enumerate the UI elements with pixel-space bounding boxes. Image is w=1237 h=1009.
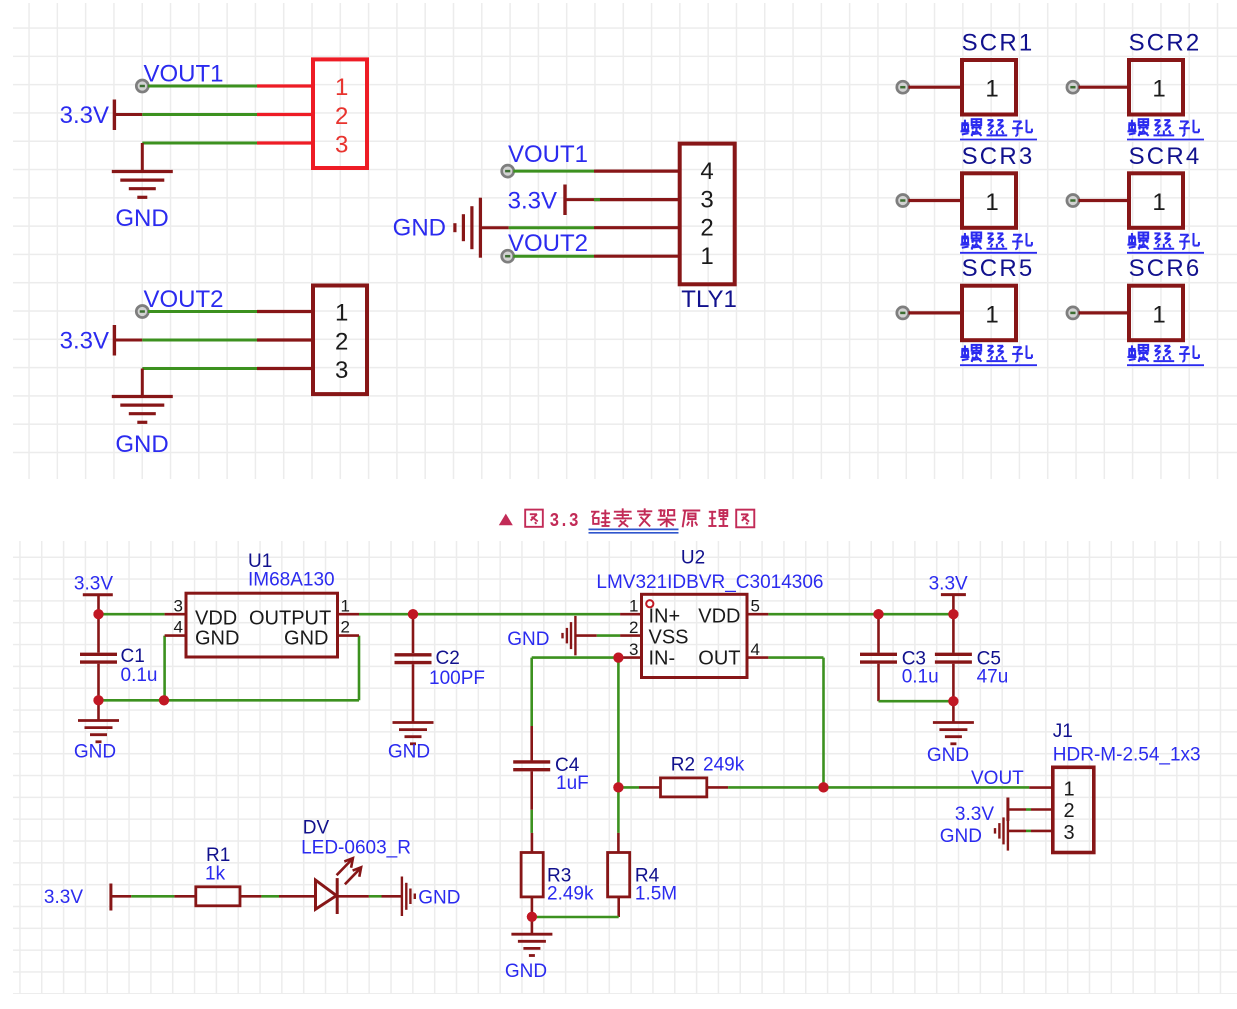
svg-text:1.5M: 1.5M [635,884,677,905]
connector P1 (red 1x3 header) [313,59,367,168]
TLY1 pin 3 stub [594,198,680,201]
pin circle VOUT2 [136,306,148,318]
junction node 3.3V/C1 [93,609,103,619]
wire VOUT1 to TLY1.4 [513,170,594,173]
caption text: yuan li tu [683,511,701,528]
svg-text:J1: J1 [1053,721,1073,742]
ground symbol (C2) [393,721,434,724]
svg-text:3.3: 3.3 [550,510,579,532]
svg-text:GND: GND [195,628,239,650]
svg-text:3.3V: 3.3V [929,574,968,595]
label luosikong (SCR3) [960,233,1037,253]
svg-text:3: 3 [335,357,348,384]
junction node C5/3.3V [948,609,958,619]
label luosikong (SCR4) [1127,233,1204,253]
svg-text:4: 4 [700,158,713,185]
P1 pin 2 stub [257,113,313,116]
svg-text:1: 1 [1152,189,1165,216]
svg-text:1: 1 [700,243,713,270]
junction node feedback/VOUT [818,782,828,792]
caption triangle marker [499,514,513,526]
svg-text:3.3V: 3.3V [955,804,994,825]
junction node C2 [408,609,418,619]
svg-text:2: 2 [1064,800,1075,822]
wire 3.3V to TLY1.3 [565,198,594,201]
label luosikong (SCR6) [1127,345,1204,365]
svg-text:GND: GND [418,888,460,909]
svg-text:1: 1 [985,301,998,328]
wire LED to GND [337,895,369,898]
svg-text:LED-0603_R: LED-0603_R [301,838,411,859]
grid background bottom schematic [13,541,1237,994]
screw hole SCR4 [1067,143,1202,228]
svg-text:VSS: VSS [649,626,689,648]
U1 pin 2 stub [338,634,360,637]
junction node R2 left [613,782,623,792]
J1 pin 3 stub [1031,830,1053,833]
wire VOUT2 to P2.1 [148,310,257,313]
resistor R1 [196,887,240,906]
ground symbol (J1) [1007,811,1009,851]
wire C3 bottom to C5 GND [879,700,954,703]
svg-text:1: 1 [1152,301,1165,328]
wire 3.3V stem to node (P2) [114,339,142,342]
label luosikong (SCR5) [960,345,1037,365]
svg-text:SCR2: SCR2 [1129,30,1202,57]
U2 pin 5 stub [747,613,768,616]
P2 pin 1 stub [257,310,313,313]
svg-text:C1: C1 [121,646,145,667]
LED DV [316,880,337,909]
svg-text:HDR-M-2.54_1x3: HDR-M-2.54_1x3 [1053,745,1201,766]
svg-text:2: 2 [700,215,713,242]
svg-text:GND: GND [940,826,982,847]
wire GND elbow down (P2) [141,369,144,397]
wire GND to J1.3 [1008,830,1026,833]
pin circle VOUT2 (TLY1) [502,250,514,262]
svg-text:3.3V: 3.3V [60,328,109,355]
svg-text:OUTPUT: OUTPUT [249,608,331,630]
junction node R3/R4 GND [527,912,537,922]
svg-text:3.3V: 3.3V [44,887,83,908]
svg-text:1: 1 [341,597,350,616]
U2 pin 2 stub [620,634,641,637]
wire U1.OUT to U2.IN+ [359,613,620,616]
svg-text:0.1u: 0.1u [121,665,158,686]
P2 pin 3 stub [257,367,313,370]
capacitor C2 [412,614,415,653]
svg-text:3: 3 [1064,822,1075,844]
junction node U2.IN- [613,653,623,663]
wire VOUT1 to P1.1 [148,85,257,88]
TLY1 pin 1 stub [594,255,680,258]
wire GND to P2.3 [142,367,257,370]
svg-text:SCR6: SCR6 [1129,255,1202,282]
svg-text:1: 1 [1152,76,1165,103]
wire 3.3V stem to node [114,113,142,116]
pin circle VOUT1 [136,80,148,92]
power symbol 3.3V bar (R1) [109,884,112,911]
svg-text:2.49k: 2.49k [547,884,594,905]
resistor R2 [618,786,639,789]
P2 pin 2 stub [257,338,313,341]
wire U1 pin2 down [358,636,361,701]
capacitor C4 [530,658,533,726]
svg-text:4: 4 [174,618,183,637]
grid background top schematic [13,3,1237,479]
ground symbol (P2) [112,395,173,398]
wire U2.IN- left to C4 branch [532,656,619,659]
wire 3.3V rail to U1.VDD [99,613,165,616]
svg-text:VOUT2: VOUT2 [144,286,224,313]
caption text: gui mai zhi jia (underlined) [591,510,610,526]
power symbol 3.3V bar (TLY1) [563,185,566,216]
capacitor C3 [877,614,880,653]
wire 3.3V to R1 [111,895,131,898]
wire 3.3V to J1.2 [1008,808,1026,811]
power symbol 3.3V bar (P1) [113,100,116,131]
wire U2.IN- down to R2/R4 node [617,658,620,788]
wire GND to U2.VSS [575,634,596,637]
U2 pin 4 stub [747,656,768,659]
svg-text:2: 2 [341,618,350,637]
svg-text:U2: U2 [681,548,705,569]
svg-text:4: 4 [751,640,760,659]
screw hole SCR3 [897,143,1035,228]
svg-text:1uF: 1uF [556,773,589,794]
svg-text:2: 2 [335,103,348,130]
junction node C5 GND [948,696,958,706]
TLY1 pin 2 stub [594,226,680,229]
wire R1 to LED DV [240,895,261,898]
resistor R3 [531,833,534,853]
svg-text:R2: R2 [671,755,695,776]
ground symbol (TLY1) [479,198,482,258]
U1 pin 4 stub [165,634,186,637]
junction node C3 [873,609,883,619]
svg-text:SCR3: SCR3 [962,143,1035,170]
P1 pin 1 stub [257,84,313,87]
U2 pin 1 stub [620,613,641,616]
TLY1 pin 4 stub [594,170,680,173]
svg-text:3: 3 [174,597,183,616]
mic U1 body [186,593,338,657]
capacitor C5 [952,614,955,653]
svg-text:1: 1 [335,299,348,326]
svg-text:3: 3 [700,187,713,214]
J1 pin 1 stub [1029,786,1053,789]
svg-text:VDD: VDD [698,605,740,627]
label luosikong (SCR1) [960,119,1037,139]
screw hole SCR5 [897,255,1035,340]
pin circle VOUT1 (TLY1) [502,165,514,177]
wire GND rail [99,699,360,702]
svg-text:2: 2 [629,618,638,637]
svg-text:GND: GND [388,742,430,763]
svg-text:GND: GND [927,745,969,766]
power symbol 3.3V bar (J1) [1006,798,1009,822]
svg-text:5: 5 [751,597,760,616]
wire GND stem (TLY1) [480,226,508,229]
wire U1 pin4 down [163,636,166,701]
wire 3.3V to P2.2 [142,339,257,342]
svg-text:3: 3 [335,131,348,158]
svg-text:GND: GND [115,431,168,458]
svg-text:VOUT: VOUT [971,768,1024,789]
svg-text:47u: 47u [977,667,1009,688]
svg-text:SCR4: SCR4 [1129,143,1202,170]
svg-text:GND: GND [507,629,549,650]
svg-text:VDD: VDD [195,608,237,630]
J1 pin 2 stub [1031,808,1053,811]
svg-text:VOUT2: VOUT2 [508,230,588,257]
svg-text:3.3V: 3.3V [74,574,113,595]
LED arrows [337,858,362,884]
wire GND elbow down [141,143,144,172]
junction node U1.GND rail [159,695,169,705]
ground symbol (P1) [112,170,173,173]
svg-text:0.1u: 0.1u [902,667,939,688]
op-amp U2 body [642,594,748,677]
svg-text:1: 1 [335,74,348,101]
U1 pin 3 stub [165,613,186,616]
svg-text:1k: 1k [205,864,226,885]
junction dots overlay [93,609,958,922]
svg-text:IM68A130: IM68A130 [248,570,335,591]
wire R4 bottom to R3 bottom [532,916,619,919]
svg-text:1: 1 [629,597,638,616]
svg-text:OUT: OUT [698,647,740,669]
svg-text:3.3V: 3.3V [508,188,557,215]
wire VOUT to J1.1 [824,786,1030,789]
connector P2 (1x3 header) [313,286,367,395]
svg-text:249k: 249k [703,755,745,776]
power symbol 3.3V bar (P2) [113,325,116,356]
svg-text:GND: GND [115,205,168,232]
svg-text:C2: C2 [436,648,460,669]
svg-text:GND: GND [74,742,116,763]
U2 pin 3 stub [620,656,641,659]
wire U2.VDD to 3.3V rail [768,613,953,616]
screw hole SCR2 [1067,30,1202,115]
wire GND to TLY1.2 [509,226,594,229]
capacitor C1 [97,614,100,652]
U2 pin1 indicator circle [646,600,653,607]
svg-text:GND: GND [505,961,547,982]
U1 pin 1 stub [338,613,360,616]
ground symbol (U2.VSS) [574,616,576,656]
wire VOUT2 to TLY1.1 [513,255,594,258]
caption text: tu 3.3 [525,510,543,527]
junction node C1/GND rail [93,695,103,705]
svg-text:1: 1 [985,76,998,103]
wire U2.OUT to feedback node [768,656,823,659]
svg-text:3.3V: 3.3V [60,102,109,129]
svg-text:VOUT1: VOUT1 [508,141,588,168]
svg-text:GND: GND [393,215,446,242]
connector J1 (1x3 header) [1053,767,1094,852]
label luosikong (SCR2) [1127,119,1204,139]
wire GND to P1.3 [142,142,257,145]
svg-text:SCR5: SCR5 [962,255,1035,282]
svg-text:3: 3 [629,640,638,659]
ground symbol (C5) [933,721,974,724]
wire 3.3V to P1.2 [142,113,257,116]
resistor R4 [617,787,620,833]
ground symbol (R3) [531,917,534,934]
connector TLY1 (1x4 header) [680,144,735,285]
svg-text:DV: DV [303,818,330,839]
screw hole SCR1 [897,30,1035,115]
ground symbol (LED) [401,877,403,917]
svg-text:1: 1 [985,189,998,216]
P1 pin 3 stub [257,141,313,144]
svg-text:VOUT1: VOUT1 [144,61,224,88]
svg-text:TLY1: TLY1 [681,286,737,313]
svg-text:IN-: IN- [649,647,676,669]
svg-text:GND: GND [284,628,328,650]
svg-text:2: 2 [335,328,348,355]
screw hole SCR6 [1067,255,1202,340]
ground symbol (C1) [97,700,100,720]
svg-text:LMV321IDBVR_C3014306: LMV321IDBVR_C3014306 [596,572,823,593]
svg-text:100PF: 100PF [429,668,485,689]
svg-text:SCR1: SCR1 [962,30,1035,57]
svg-text:1: 1 [1064,779,1075,801]
svg-text:IN+: IN+ [649,605,681,627]
